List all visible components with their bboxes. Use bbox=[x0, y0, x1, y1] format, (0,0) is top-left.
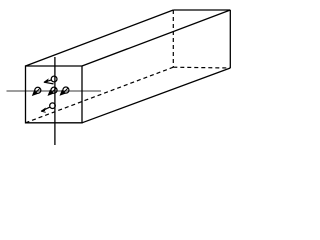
hidden far left edge A'D' (dashed vertical) bbox=[172, 10, 174, 67]
moment symbol bottom: arrow bbox=[41, 107, 50, 112]
moment symbol right: arrow bbox=[60, 88, 68, 95]
edge CC' bottom-right oblique bbox=[82, 68, 230, 123]
horizontal axis (gray) bbox=[7, 90, 102, 92]
moment symbol center: arrow bbox=[48, 88, 56, 95]
moment symbol left: arrow bbox=[33, 88, 41, 95]
moment symbol top: arrow bbox=[44, 79, 54, 84]
vertical axis bbox=[54, 57, 56, 145]
hidden far bottom edge D'C' (dashed) bbox=[173, 66, 230, 69]
hidden edge DD' (dashed oblique) bbox=[26, 67, 174, 123]
edge AA' top-left oblique bbox=[26, 10, 174, 66]
edge BB' top-right oblique bbox=[82, 10, 230, 66]
far top edge A'B' bbox=[173, 9, 230, 11]
moment symbol bottom: circle bbox=[50, 103, 56, 109]
moment symbol center: circle bbox=[51, 87, 57, 93]
moment symbol right: circle bbox=[63, 87, 69, 93]
moment symbol top: circle bbox=[51, 76, 57, 82]
far right edge B'C' bbox=[229, 10, 231, 68]
near face square bbox=[26, 66, 83, 123]
moment symbol left: circle bbox=[35, 87, 41, 93]
